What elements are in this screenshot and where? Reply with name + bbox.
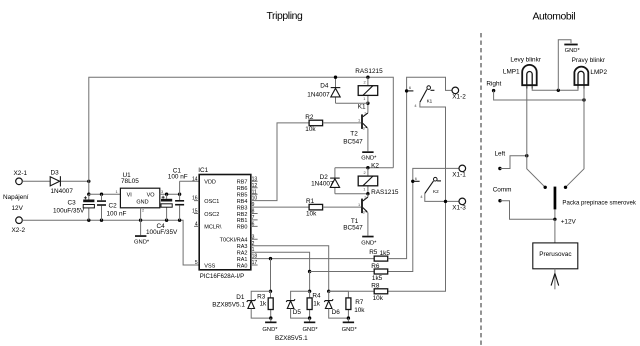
- relay coil K2 RAS1215: [358, 162, 399, 195]
- wire D1 bottom: [251, 309, 271, 319]
- svg-text:1N4007: 1N4007: [311, 180, 334, 187]
- junction C4 top: [165, 193, 168, 196]
- svg-text:LMP2: LMP2: [590, 69, 607, 76]
- svg-text:Pravy blinkr: Pravy blinkr: [572, 57, 606, 64]
- svg-text:2: 2: [364, 111, 366, 116]
- svg-text:VI: VI: [127, 192, 133, 198]
- wire R1 to T1 base: [323, 206, 362, 208]
- svg-text:100 nF: 100 nF: [168, 174, 188, 181]
- resistor R5 1k5: [369, 249, 390, 261]
- diode D4 1N4007: [307, 77, 340, 103]
- wire T2 collector up: [367, 103, 369, 113]
- svg-text:78L05: 78L05: [121, 178, 139, 185]
- resistor R4 1k: [307, 291, 321, 318]
- node Comm: [493, 187, 512, 203]
- svg-text:K2: K2: [371, 162, 379, 169]
- svg-text:Comm: Comm: [493, 187, 512, 194]
- terminal X1-1: [452, 165, 466, 179]
- svg-text:T2: T2: [350, 131, 358, 138]
- svg-text:7: 7: [252, 215, 255, 221]
- svg-text:RA2: RA2: [237, 250, 248, 256]
- junction K2 pin6: [411, 180, 414, 183]
- svg-text:GND*: GND*: [134, 239, 150, 245]
- svg-text:C3: C3: [68, 200, 77, 207]
- svg-text:Napájení: Napájení: [3, 194, 29, 201]
- svg-text:100 nF: 100 nF: [107, 211, 127, 218]
- ground GND* under R7: [342, 318, 358, 333]
- svg-text:2: 2: [142, 208, 144, 213]
- svg-text:13: 13: [252, 176, 258, 182]
- svg-text:RAS1215: RAS1215: [371, 189, 399, 196]
- svg-text:3: 3: [363, 125, 365, 130]
- ground GND* under T1: [361, 236, 377, 247]
- terminal X1-3: [452, 198, 466, 212]
- svg-text:12V: 12V: [12, 205, 24, 212]
- junction collector/coil/D4: [366, 102, 369, 105]
- svg-text:1k: 1k: [313, 301, 321, 308]
- junction T1 collector: [366, 192, 369, 195]
- junction R3/D1 node: [269, 290, 272, 293]
- svg-text:1: 1: [363, 186, 365, 191]
- switch contact K1: [407, 85, 435, 108]
- svg-text:6: 6: [252, 222, 255, 228]
- svg-text:R3: R3: [257, 294, 266, 301]
- svg-text:2: 2: [364, 79, 366, 84]
- svg-text:10k: 10k: [373, 295, 384, 302]
- svg-text:R5: R5: [369, 249, 378, 256]
- wire U1 GND down: [140, 208, 142, 235]
- junction C4 bottom: [165, 219, 168, 222]
- wire RA1 down to R3: [270, 259, 272, 292]
- junction C3 bottom: [87, 219, 90, 222]
- switch contact K2: [413, 176, 441, 199]
- wire X2-1 to D3: [22, 180, 50, 182]
- svg-text:D6: D6: [332, 309, 341, 316]
- wire D6 bottom: [329, 309, 349, 319]
- terminal X2-2: [12, 217, 26, 234]
- svg-text:RB1: RB1: [237, 218, 248, 224]
- svg-text:T0CKI/RA4: T0CKI/RA4: [220, 238, 248, 244]
- contact dot left: [544, 186, 547, 189]
- svg-text:GND*: GND*: [342, 327, 358, 333]
- junction +12V: [553, 218, 556, 221]
- svg-text:X1-3: X1-3: [452, 205, 466, 212]
- svg-text:IC1: IC1: [198, 167, 208, 174]
- svg-text:10k: 10k: [306, 211, 317, 218]
- svg-text:RA1: RA1: [237, 257, 248, 263]
- junction X1-3/R8: [444, 200, 447, 203]
- svg-text:R4: R4: [312, 293, 321, 300]
- svg-text:PIC16F628A-I/P: PIC16F628A-I/P: [200, 273, 244, 280]
- svg-text:GND*: GND*: [303, 327, 319, 333]
- svg-text:RB6: RB6: [237, 186, 248, 192]
- svg-text:Left: Left: [495, 151, 506, 158]
- svg-text:1k5: 1k5: [372, 275, 383, 282]
- wire D4 bottom link: [336, 102, 368, 104]
- svg-text:GND: GND: [136, 200, 148, 206]
- svg-text:4: 4: [195, 222, 198, 228]
- wire R6 to K2 and X1-1: [388, 168, 459, 271]
- wire RA2 pin1 down to R6 row: [251, 252, 310, 271]
- svg-text:Trippling: Trippling: [267, 11, 303, 22]
- svg-text:17: 17: [252, 260, 258, 266]
- wire below flasher: [554, 269, 556, 290]
- junction R8/D6 node: [327, 290, 330, 293]
- regulator U1 78L05: [116, 172, 164, 212]
- svg-text:10k: 10k: [354, 307, 365, 314]
- svg-text:3: 3: [161, 189, 163, 194]
- ground GND* under R3: [262, 318, 278, 333]
- switch lever Packa prepinace smerovek: [554, 187, 637, 220]
- svg-text:6: 6: [415, 176, 417, 181]
- svg-text:11: 11: [252, 189, 257, 195]
- svg-text:5: 5: [195, 260, 198, 266]
- svg-text:1k: 1k: [260, 301, 268, 308]
- svg-text:BZX85V5.1: BZX85V5.1: [212, 301, 245, 308]
- diode D2 1N4007: [311, 168, 340, 194]
- svg-text:8: 8: [252, 209, 255, 215]
- resistor R6 1k5: [374, 269, 388, 274]
- svg-text:1N4007: 1N4007: [51, 188, 74, 195]
- junction R4/D5 ground join: [308, 316, 311, 319]
- lamp LMP2 Pravy blinkr: [572, 57, 608, 89]
- junction RA1/R3 branch: [269, 257, 272, 260]
- svg-text:VO: VO: [147, 192, 156, 198]
- wire rail to U1 VI: [89, 193, 121, 195]
- wire R5 up to K1 and X1-2: [388, 77, 452, 258]
- node Right: [486, 81, 501, 93]
- wire K2 common to X1-3: [425, 193, 459, 201]
- junction D3/rail: [87, 180, 90, 183]
- wire LMP2 right leg to lever: [566, 86, 585, 187]
- chassis arrow symbol: [551, 273, 559, 285]
- ground GND* under T2: [361, 151, 377, 161]
- junction R7/D6 ground join: [347, 316, 350, 319]
- wire down to R4: [309, 272, 311, 292]
- wire R8 left: [329, 290, 375, 292]
- svg-text:GND*: GND*: [361, 240, 377, 246]
- svg-text:R1: R1: [306, 198, 315, 205]
- resistor R8 10k: [371, 283, 387, 303]
- wire to flasher: [554, 219, 556, 243]
- junction R6 branch: [308, 270, 311, 273]
- svg-text:6: 6: [409, 85, 411, 90]
- wire R2 to T2 base: [323, 122, 362, 124]
- svg-text:D3: D3: [51, 170, 60, 177]
- svg-text:1: 1: [358, 118, 360, 123]
- label Napajeni 12V: [3, 194, 29, 212]
- svg-text:1: 1: [116, 189, 118, 194]
- svg-text:X2-2: X2-2: [12, 227, 26, 234]
- dashed section separator: [480, 33, 482, 346]
- svg-text:100uF/35V: 100uF/35V: [53, 208, 85, 215]
- IC U-IC1 PIC16F628A-I/P: [198, 167, 251, 280]
- lamp LMP1 Levy blinkr: [503, 56, 542, 88]
- svg-text:Packa prepinace smerovek: Packa prepinace smerovek: [562, 200, 636, 207]
- wire +12V top rail: [89, 77, 394, 194]
- svg-text:Automobil: Automobil: [533, 12, 576, 23]
- svg-text:MCLR\: MCLR\: [204, 225, 222, 231]
- wire T1 emitter to ground: [367, 213, 369, 236]
- wire up to GND*: [558, 40, 571, 91]
- svg-text:1N4007: 1N4007: [307, 91, 330, 98]
- wire D5 branch: [291, 291, 310, 300]
- resistor R3 1k: [257, 291, 273, 318]
- wire Comm net: [500, 201, 555, 220]
- svg-text:BC547: BC547: [343, 225, 363, 232]
- junction K2 coil top: [366, 166, 369, 169]
- wire D2 bottom link: [335, 193, 368, 195]
- svg-text:14: 14: [192, 176, 198, 182]
- IC1 pin stubs and pin numbers: [192, 176, 258, 266]
- junction U1 GND rail crossing: [139, 219, 142, 222]
- svg-text:K1: K1: [427, 99, 433, 104]
- svg-text:3: 3: [363, 210, 365, 215]
- junction C3 top: [87, 193, 90, 196]
- wire GND bottom rail to VSS: [22, 220, 199, 265]
- junction lamp ground: [557, 89, 560, 92]
- svg-text:VSS: VSS: [204, 263, 215, 269]
- svg-text:100uF/35V: 100uF/35V: [146, 229, 178, 236]
- svg-text:GND*: GND*: [565, 48, 581, 54]
- svg-text:RB5: RB5: [237, 193, 248, 199]
- svg-text:RB3: RB3: [237, 205, 248, 211]
- svg-text:LMP1: LMP1: [503, 68, 520, 75]
- svg-text:X1-1: X1-1: [452, 172, 466, 179]
- transistor T1 BC547: [343, 195, 368, 231]
- svg-text:+12V: +12V: [561, 218, 577, 225]
- wire RA3 pin2 down to R8 row: [251, 246, 329, 292]
- svg-text:Levy blinkr: Levy blinkr: [510, 56, 541, 63]
- svg-text:D4: D4: [320, 82, 329, 89]
- ground GND* under U1: [134, 235, 150, 245]
- wire K2 coil rail: [335, 167, 393, 169]
- svg-text:1k5: 1k5: [380, 250, 391, 257]
- junction C1 top: [178, 193, 181, 196]
- wire R6 left: [310, 271, 375, 273]
- svg-text:RB7: RB7: [237, 180, 248, 186]
- svg-text:K2: K2: [433, 189, 439, 194]
- capacitor C2 100nF: [97, 194, 126, 220]
- svg-text:C2: C2: [109, 203, 118, 210]
- wire RB4 pin10 to R2: [251, 123, 309, 201]
- junction right lamp: [582, 98, 585, 101]
- svg-text:X1-2: X1-2: [452, 94, 466, 101]
- ground GND* (automobil): [564, 44, 580, 55]
- svg-text:K1: K1: [358, 104, 366, 111]
- svg-text:15: 15: [192, 209, 198, 215]
- wire K1 common down to K2/X1-3/R8: [388, 102, 446, 291]
- resistor R7 10k: [329, 291, 366, 318]
- diode D3 1N4007: [50, 170, 73, 196]
- zener D6 BZX85V5.1: [324, 291, 340, 316]
- terminal X2-1: [14, 170, 28, 185]
- junction C2 top: [100, 193, 103, 196]
- resistor R6 1k5 value labels: [371, 263, 382, 282]
- svg-text:RB0: RB0: [237, 225, 248, 231]
- junction C2 bottom: [100, 219, 103, 222]
- svg-text:R8: R8: [371, 283, 380, 290]
- relay coil K1 RAS1215: [355, 68, 383, 111]
- svg-text:OSC2: OSC2: [204, 212, 219, 218]
- svg-text:D1: D1: [236, 294, 245, 301]
- wire T1 collector: [367, 194, 369, 197]
- svg-text:1: 1: [363, 96, 365, 101]
- svg-text:R7: R7: [355, 299, 364, 306]
- capacitor C4 100uF/35V: [146, 194, 178, 236]
- zener D5 BZX85V5.1: [286, 299, 301, 316]
- svg-text:OSC1: OSC1: [204, 199, 219, 205]
- junction R3/D1 ground join: [269, 316, 272, 319]
- junction R4/D5 node: [308, 290, 311, 293]
- wire C1 to VDD pin 14: [180, 180, 200, 182]
- wire D3 to +12V node: [61, 180, 89, 182]
- svg-text:GND*: GND*: [361, 156, 377, 162]
- wire LMP1 left leg to lever: [527, 86, 545, 187]
- junction K1 coil top: [366, 76, 369, 79]
- svg-text:GND*: GND*: [262, 327, 278, 333]
- zener D1 BZX85V5.1: [212, 294, 255, 309]
- junction K1 pin6: [405, 89, 408, 92]
- svg-text:RA0: RA0: [237, 263, 248, 269]
- svg-text:RB2: RB2: [237, 212, 248, 218]
- wire U1 VO to C1: [160, 193, 180, 195]
- contact dot right: [564, 186, 567, 189]
- resistor R2 10k: [305, 114, 322, 133]
- svg-text:RB4: RB4: [237, 199, 248, 205]
- resistor R1 10k: [306, 198, 323, 218]
- capacitor C3 100uF/35V: [53, 194, 94, 220]
- wire lamp inner pins to ground join: [532, 86, 578, 90]
- wire T2 emitter to ground: [367, 128, 369, 151]
- svg-text:16: 16: [192, 196, 198, 202]
- svg-text:D5: D5: [293, 309, 302, 316]
- junction C1 bottom: [178, 219, 181, 222]
- svg-text:2: 2: [364, 195, 366, 200]
- svg-text:VDD: VDD: [204, 180, 216, 186]
- svg-text:12: 12: [252, 183, 258, 189]
- wire RB3 pin9 to R1: [251, 206, 309, 208]
- wire D1 branch: [251, 291, 270, 300]
- wire Right net: [494, 91, 584, 100]
- wire RA1 pin18 to R5: [251, 258, 374, 260]
- svg-text:X2-1: X2-1: [14, 170, 28, 177]
- svg-text:3: 3: [252, 234, 255, 240]
- wire Left net: [500, 156, 527, 169]
- svg-text:1: 1: [358, 202, 360, 207]
- flasher box Prerusovac: [533, 243, 578, 269]
- junction left lamp: [525, 154, 528, 157]
- junction D4 top: [334, 76, 337, 79]
- terminal X1-2: [452, 87, 466, 100]
- capacitor C1 100nF: [168, 167, 188, 220]
- svg-text:BZX85V5.1: BZX85V5.1: [275, 335, 308, 342]
- ground GND* under R4: [303, 318, 319, 333]
- node Left: [495, 151, 506, 171]
- svg-text:2: 2: [364, 170, 366, 175]
- wire D5 bottom: [291, 309, 310, 319]
- svg-text:Prerusovac: Prerusovac: [539, 251, 572, 258]
- svg-text:R2: R2: [305, 114, 314, 121]
- svg-text:BC547: BC547: [343, 138, 363, 145]
- svg-text:Right: Right: [486, 81, 501, 88]
- transistor T2 BC547: [343, 111, 368, 145]
- svg-text:10k: 10k: [305, 126, 316, 133]
- svg-text:RA3: RA3: [237, 244, 248, 250]
- svg-text:RAS1215: RAS1215: [355, 68, 383, 75]
